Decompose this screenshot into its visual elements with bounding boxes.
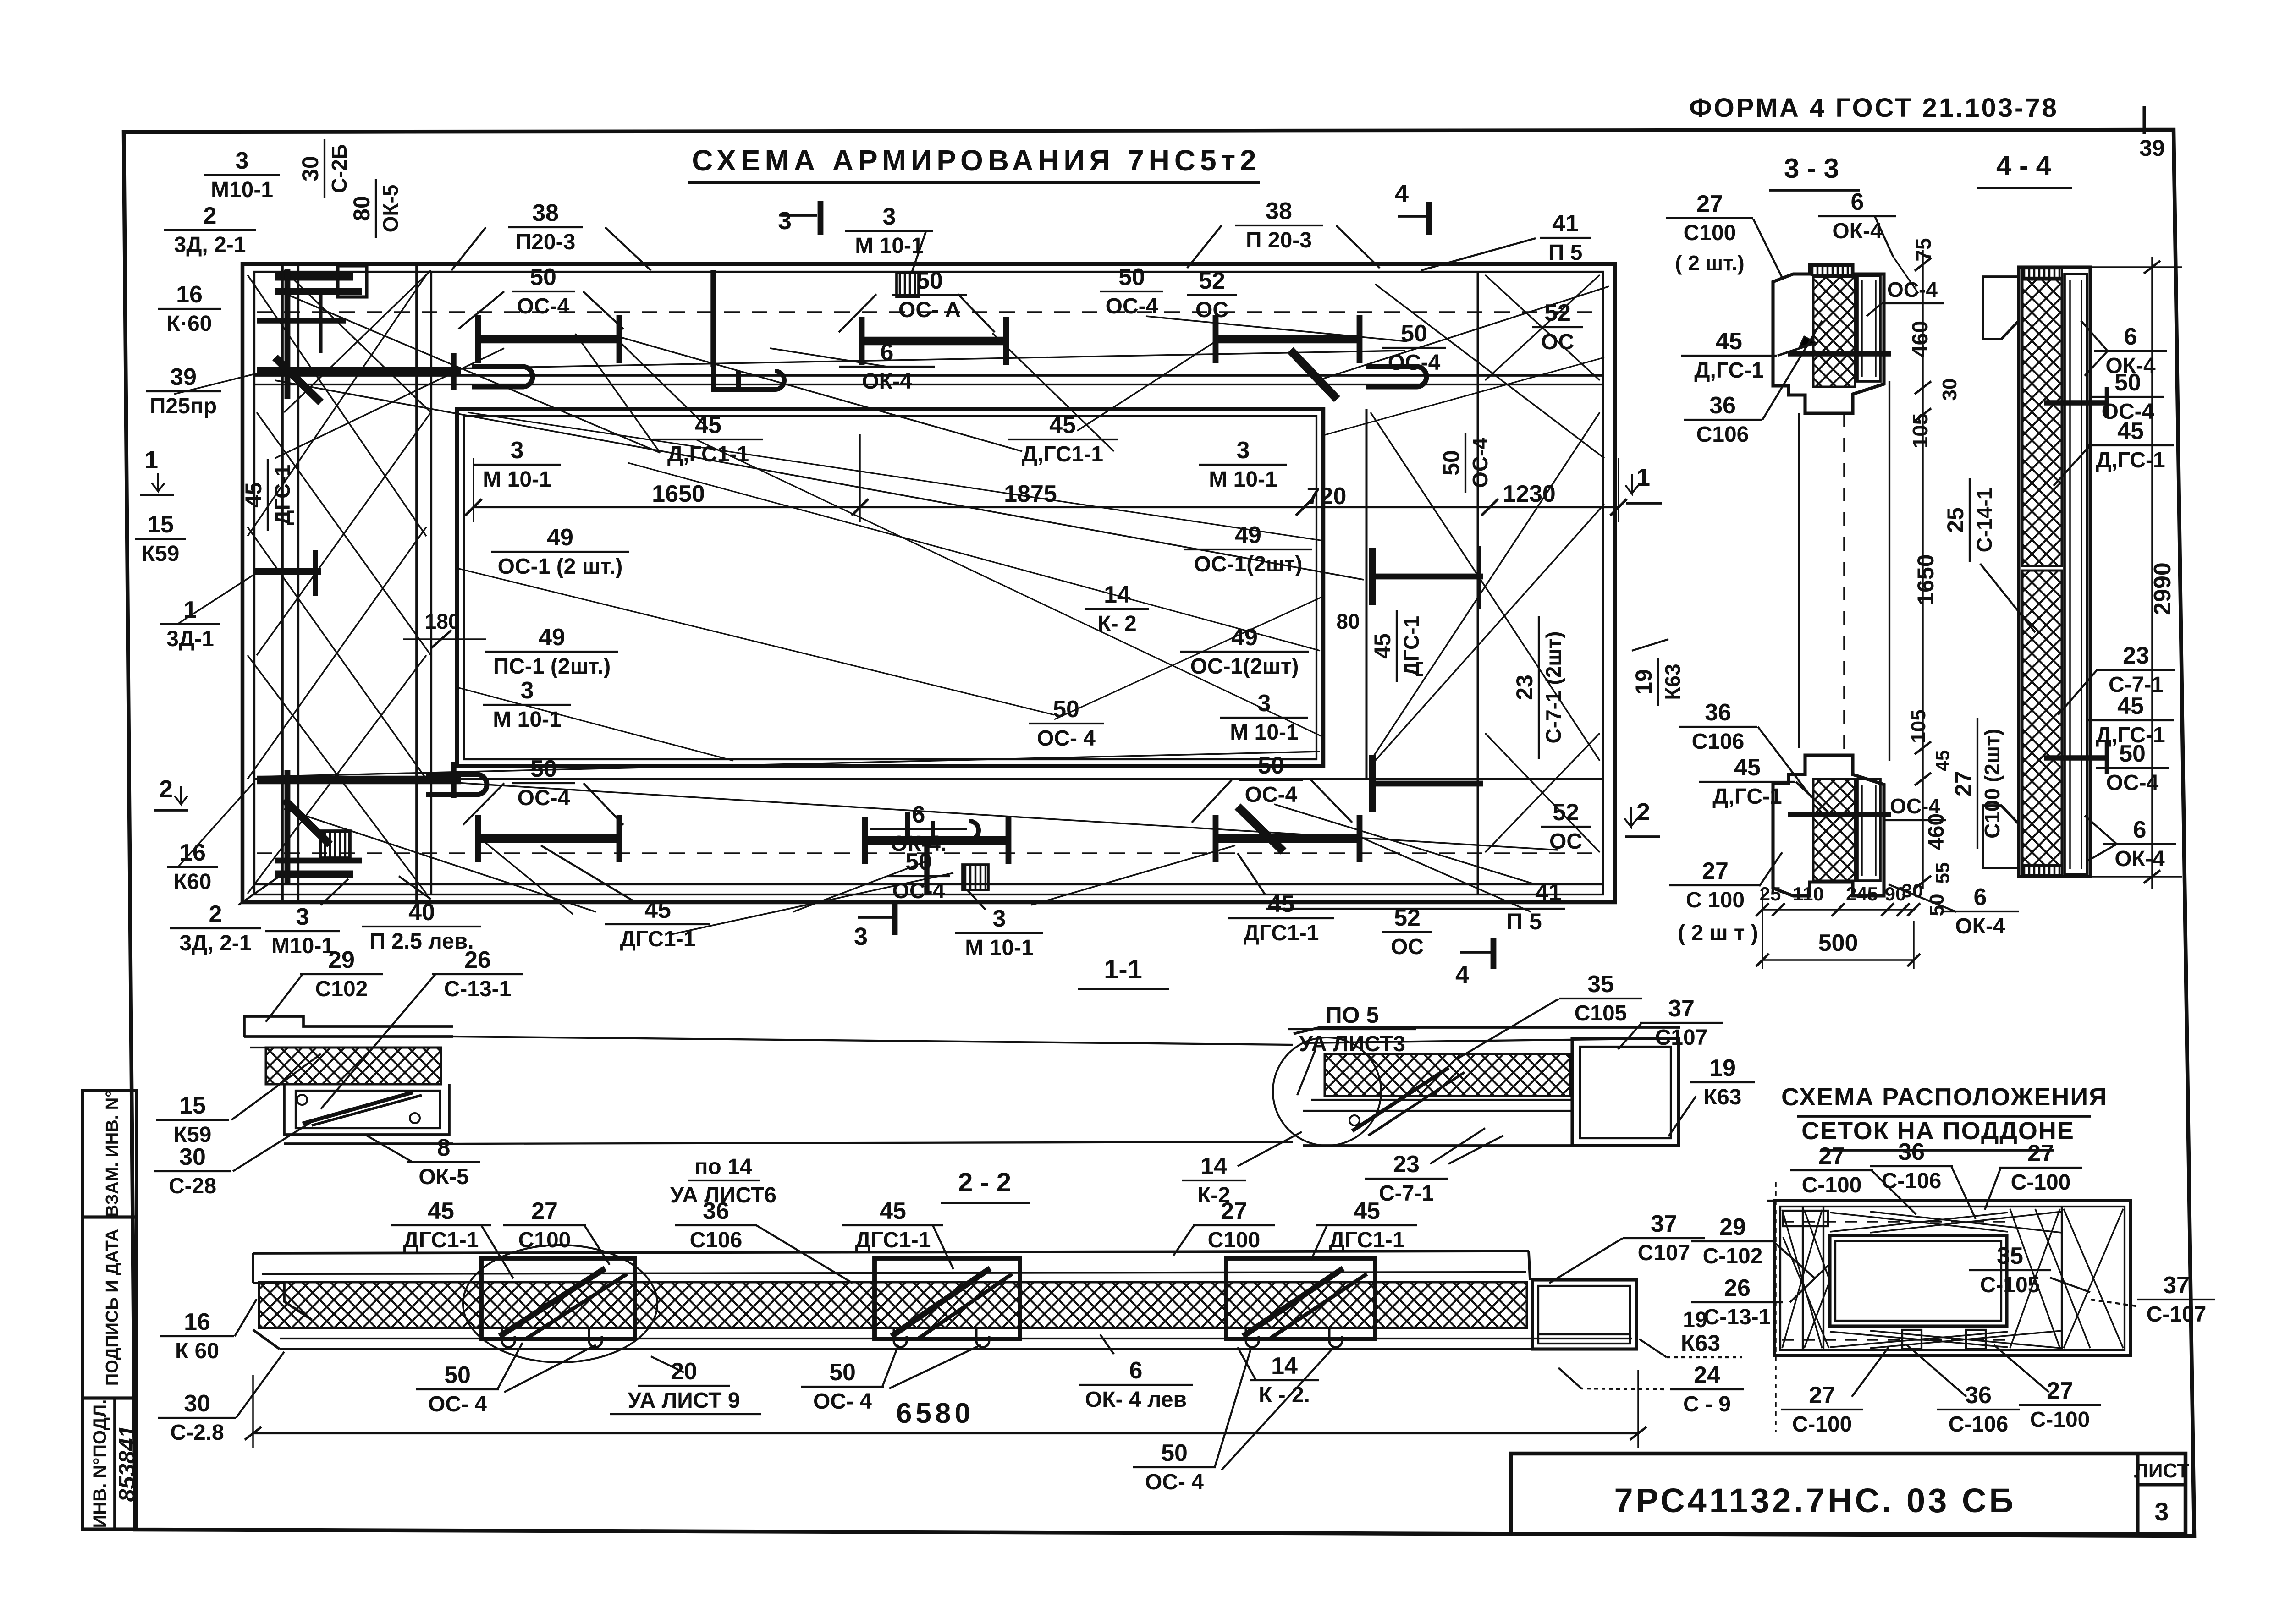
svg-text:2: 2 <box>159 775 173 803</box>
label 29/С-102 right <box>1691 1214 1774 1268</box>
2-2 right end box <box>1529 1251 1530 1280</box>
svg-text:2: 2 <box>209 901 222 927</box>
4-4 bottom cap stripe <box>2022 866 2062 875</box>
label 38/П20-3 top1 <box>508 200 583 254</box>
svg-text:853841: 853841 <box>114 1426 140 1502</box>
svg-text:С-13-1: С-13-1 <box>1704 1305 1771 1329</box>
2-2 left end step <box>252 1253 254 1283</box>
4-4 dim line 2990 <box>2151 257 2153 889</box>
leader 14-1-1 <box>1238 1132 1302 1166</box>
svg-text:15: 15 <box>147 511 174 538</box>
bar ОС-4 top 1 <box>478 335 619 344</box>
2-2 detail ellipse <box>463 1245 657 1362</box>
hook top-left <box>472 367 533 387</box>
svg-text:С-7-1: С-7-1 <box>1379 1181 1434 1206</box>
diag bar ДГС bottom-right <box>1238 807 1283 851</box>
label 30/С-28 2-2 left <box>158 1390 236 1445</box>
svg-text:14: 14 <box>1104 582 1130 608</box>
label 35/С105 1-1 <box>1559 971 1642 1026</box>
svg-text:27: 27 <box>2047 1377 2073 1404</box>
label 45/ДГС-1 4-4 low <box>2087 693 2174 747</box>
4-4 right cell ОК-4 <box>2065 274 2087 874</box>
pallet right band braces <box>2061 1207 2063 1350</box>
leader 19-1-1 <box>1668 1096 1696 1136</box>
svg-text:50: 50 <box>916 268 943 294</box>
label 3/М10-1 bottom-left <box>265 904 340 958</box>
dimension line 1650 1875 720 1230 <box>474 506 1619 508</box>
diag bar ДГС mid-left2 <box>284 800 330 845</box>
svg-text:23: 23 <box>1393 1151 1420 1178</box>
svg-text:ОС-4: ОС-4 <box>1468 438 1492 488</box>
label 49/ОС-1 left <box>491 524 629 579</box>
pallet dim ext lines <box>1775 1182 1777 1432</box>
svg-text:14: 14 <box>1200 1153 1227 1180</box>
leader 16 2-2 <box>235 1299 257 1336</box>
svg-text:55: 55 <box>1932 862 1953 884</box>
label 6/ОК-4 bot-center <box>870 801 967 856</box>
svg-text:30: 30 <box>1938 379 1961 401</box>
svg-text:М 10-1: М 10-1 <box>855 234 923 258</box>
svg-text:ДГС1-1: ДГС1-1 <box>855 1228 931 1252</box>
label 30/С-28 1-1 <box>154 1144 231 1198</box>
label 3/М10-1 mid-l <box>473 437 561 492</box>
label 36/С106 3-3 low <box>1679 699 1757 754</box>
bar ОС-4 top 2 <box>862 337 1006 346</box>
svg-text:1: 1 <box>1636 464 1650 491</box>
svg-text:ОК-5: ОК-5 <box>418 1165 468 1189</box>
panel plan outer rect <box>242 264 1615 902</box>
label 45/ДГС1-1 2-2 b <box>842 1198 943 1252</box>
label 50/ОС-4 top1 <box>512 264 575 318</box>
svg-text:27: 27 <box>1950 771 1976 796</box>
leader 26 <box>321 974 435 1109</box>
svg-text:ОК-4: ОК-4 <box>862 369 912 394</box>
label 52/ОС bottom <box>1382 905 1432 959</box>
label 37/С107 1-1 <box>1640 995 1723 1050</box>
svg-text:К- 2: К- 2 <box>1097 612 1136 636</box>
svg-text:ДГС1-1: ДГС1-1 <box>403 1228 479 1252</box>
right T-bar upper <box>1371 574 1483 580</box>
svg-text:С-14-1: С-14-1 <box>1972 488 1996 553</box>
svg-text:36: 36 <box>1965 1382 1992 1409</box>
label 50/ОС-4 rotated right <box>1438 433 1492 493</box>
svg-text:ОК-4: ОК-4 <box>1955 914 2005 938</box>
svg-text:ОС-4: ОС-4 <box>2106 771 2159 795</box>
section 2-2 top lines <box>253 1251 1529 1253</box>
svg-text:27: 27 <box>1702 858 1729 884</box>
svg-text:С107: С107 <box>1638 1241 1690 1265</box>
svg-text:С-106: С-106 <box>1949 1412 2009 1437</box>
label 6/ОК-4 4-4 bottom <box>2103 817 2176 871</box>
3-3 top right cell <box>1857 276 1880 381</box>
leader web lines <box>284 293 660 453</box>
title block outline <box>1511 1454 2186 1534</box>
leader 37 <box>1618 1024 1641 1049</box>
2-2 right box mark <box>1538 1333 1630 1335</box>
3-3 bottom bar ДГС-1 <box>1788 812 1891 817</box>
label 35/С-105 pallet <box>1969 1243 2051 1297</box>
anchor М10-1 stripe block top <box>897 273 919 297</box>
svg-text:по 14: по 14 <box>694 1155 752 1179</box>
svg-text:ДГС-1: ДГС-1 <box>270 465 294 525</box>
svg-text:ОС-4: ОС-4 <box>1245 783 1298 807</box>
leader 25 4-4 <box>1980 564 2035 632</box>
label 27/С100 2шт 3-3 bot <box>1669 858 1761 912</box>
svg-text:П 2.5 лев.: П 2.5 лев. <box>369 929 474 954</box>
svg-text:50: 50 <box>1401 320 1427 347</box>
label 45/ДГС-1 rotated left <box>241 459 294 531</box>
right T-bar lower <box>1371 781 1483 787</box>
svg-text:С-105: С-105 <box>1980 1273 2040 1297</box>
2-2 bottom line <box>280 1348 1637 1350</box>
svg-text:49: 49 <box>1231 624 1258 651</box>
svg-text:СХЕМА АРМИРОВАНИЯ 7НС5т2: СХЕМА АРМИРОВАНИЯ 7НС5т2 <box>692 144 1261 177</box>
svg-text:27: 27 <box>1221 1198 1247 1224</box>
svg-text:ОК-4: ОК-4 <box>2114 847 2165 871</box>
svg-text:6: 6 <box>881 339 894 366</box>
svg-text:ВЗАМ. ИНВ. N°: ВЗАМ. ИНВ. N° <box>103 1091 122 1218</box>
svg-text:1: 1 <box>184 597 197 623</box>
svg-text:49: 49 <box>547 524 573 551</box>
svg-text:45: 45 <box>644 897 671 923</box>
hook top-right <box>1366 367 1426 387</box>
svg-text:4: 4 <box>1395 180 1409 207</box>
svg-text:50: 50 <box>1161 1440 1188 1466</box>
leader 41 top <box>1421 238 1536 270</box>
svg-text:30: 30 <box>184 1390 210 1417</box>
svg-text:1230: 1230 <box>1503 481 1556 507</box>
1-1 right lower lines <box>1311 1099 1572 1101</box>
leader ОС-4 3-3 <box>1867 303 1882 316</box>
svg-text:105: 105 <box>1907 709 1930 743</box>
label 27/С-100 pallet bot-l <box>1781 1382 1863 1437</box>
label 36/С106 3-3 <box>1684 392 1762 447</box>
svg-text:УА ЛИСТ 9: УА ЛИСТ 9 <box>628 1388 740 1413</box>
svg-text:50: 50 <box>1118 264 1145 291</box>
plan axis dash line bottom <box>257 852 1600 854</box>
label 14/К-2 2-2 <box>1250 1353 1319 1407</box>
svg-text:50: 50 <box>530 264 556 291</box>
plan bottom band lines <box>254 778 1603 780</box>
svg-text:27: 27 <box>1696 191 1723 217</box>
svg-text:2 - 2: 2 - 2 <box>958 1168 1011 1197</box>
svg-text:ПОДПИСЬ И ДАТА: ПОДПИСЬ И ДАТА <box>103 1229 122 1386</box>
label 3/М10-1 lower-r <box>1220 690 1308 745</box>
svg-text:36: 36 <box>1709 392 1736 419</box>
right column verticals <box>1366 409 1368 779</box>
svg-text:С-100: С-100 <box>2011 1170 2071 1195</box>
4-4 bar ОС-4 upper <box>2044 400 2109 405</box>
leader 45 4-4 <box>2054 445 2090 486</box>
sidebar box ИНВ № ПОДЛ <box>83 1398 137 1529</box>
svg-text:16: 16 <box>179 839 206 866</box>
3-3 top hatch <box>1813 277 1855 387</box>
4-4 bar ОС-4 lower <box>2044 755 2109 760</box>
label 52/ОС bot-right <box>1541 799 1591 854</box>
svg-text:ОС: ОС <box>1391 935 1424 959</box>
left column verticals <box>281 264 284 902</box>
stirrup 2 <box>875 1258 1020 1339</box>
label 3/М10-1 mid-r <box>1199 437 1287 492</box>
label 26/С-13-1 1-1 <box>432 947 523 1001</box>
svg-text:Д,ГС-1: Д,ГС-1 <box>1712 785 1782 809</box>
svg-text:Д,ГС-1: Д,ГС-1 <box>2096 448 2165 472</box>
svg-text:16: 16 <box>184 1309 210 1335</box>
svg-text:19: 19 <box>1709 1055 1736 1081</box>
svg-text:180: 180 <box>425 609 460 633</box>
svg-text:2: 2 <box>204 203 217 229</box>
svg-text:35: 35 <box>1587 971 1614 998</box>
leader 36 3-3 <box>1762 321 1822 420</box>
leaders below plan <box>238 873 284 905</box>
label 23/С-7-1 4-4 <box>2097 642 2175 697</box>
svg-text:С-107: С-107 <box>2147 1302 2207 1327</box>
bar П25лев thick <box>257 776 461 785</box>
svg-text:ОС-4: ОС-4 <box>892 879 945 903</box>
svg-text:105: 105 <box>1908 413 1932 449</box>
1-1 right bottom edge <box>1303 1144 1572 1147</box>
svg-text:23: 23 <box>1512 675 1537 700</box>
svg-text:50: 50 <box>1258 752 1284 779</box>
svg-text:45: 45 <box>2117 693 2144 719</box>
label 39/П25пр left <box>146 364 221 418</box>
svg-text:75: 75 <box>1911 238 1935 261</box>
4-4 top cap stripe <box>2022 269 2062 278</box>
svg-text:45: 45 <box>1370 633 1395 659</box>
label 50/ОС-4 bot-right <box>1239 752 1303 807</box>
svg-text:1-1: 1-1 <box>1104 955 1142 984</box>
pallet outer rect <box>1774 1201 2131 1355</box>
svg-text:27: 27 <box>2027 1140 2054 1167</box>
svg-text:ОС-4: ОС-4 <box>518 786 570 810</box>
svg-text:П 5: П 5 <box>1506 909 1542 934</box>
4-4 hatch band upper <box>2022 280 2062 566</box>
label 36/С-106 pallet top <box>1870 1139 1953 1193</box>
svg-text:40: 40 <box>408 899 435 926</box>
label 50/ОС-4 2-2 a <box>416 1362 499 1416</box>
hook top-center Ш <box>713 362 784 390</box>
label 50/ОС-4 top3 <box>1100 264 1163 318</box>
svg-text:С100 (2шт): С100 (2шт) <box>1980 729 2004 839</box>
svg-text:3: 3 <box>236 148 249 174</box>
svg-text:ОС- 4: ОС- 4 <box>813 1389 872 1414</box>
plan window opening <box>457 409 1323 766</box>
svg-text:М 10-1: М 10-1 <box>1230 720 1298 745</box>
4-4 left bottom notch <box>1983 806 2019 868</box>
1-1 left bottom edge <box>284 1142 453 1145</box>
svg-text:С-2.8: С-2.8 <box>170 1421 224 1445</box>
svg-text:460: 460 <box>1908 321 1933 357</box>
label 19/К63 rotated <box>1631 658 1685 706</box>
svg-text:30: 30 <box>297 156 323 181</box>
svg-text:27: 27 <box>1809 1382 1835 1409</box>
svg-text:ОС-1(2шт): ОС-1(2шт) <box>1190 654 1299 679</box>
svg-text:3: 3 <box>993 905 1006 932</box>
label 16/К60 left lower <box>167 839 218 894</box>
svg-text:К63: К63 <box>1704 1085 1742 1109</box>
label 50/ОС-4 center <box>1029 696 1104 751</box>
label 6/ОК-4 3-3 top <box>1818 189 1896 243</box>
svg-text:52: 52 <box>1553 799 1579 826</box>
bar ОС-4 bottom 3 <box>1216 834 1360 843</box>
1-1 right end box <box>1572 1038 1679 1146</box>
svg-text:1875: 1875 <box>1004 481 1057 507</box>
svg-text:С102: С102 <box>315 977 368 1001</box>
3-3 bottom dims 25 110 245 90 30 <box>1762 909 1914 911</box>
left column cross bracing <box>248 275 426 536</box>
svg-text:К59: К59 <box>142 542 180 566</box>
plan top-left corner fitting <box>275 273 353 281</box>
hook bottom-center Ш <box>908 812 979 839</box>
svg-text:45: 45 <box>880 1198 906 1224</box>
label 50/ОС-4 4-4 low <box>2096 741 2169 795</box>
leader 15 <box>231 1054 321 1120</box>
stirrup 1 <box>481 1258 635 1339</box>
2-2 hatch band <box>259 1282 1527 1328</box>
sidebar box ПОДПИСЬ И ДАТА <box>83 1217 137 1398</box>
label 52/ОС right-top <box>1532 300 1583 354</box>
svg-text:К 60: К 60 <box>175 1339 219 1363</box>
flag 50 bot1 <box>463 783 504 825</box>
svg-text:ОК-4: ОК-4 <box>1832 219 1883 243</box>
svg-text:3Д, 2-1: 3Д, 2-1 <box>174 233 246 257</box>
3-3 bottom hatch <box>1813 779 1855 881</box>
label 6/ОК-4 3-3 bottom <box>1941 884 2019 938</box>
svg-text:4 - 4: 4 - 4 <box>1996 150 2052 181</box>
svg-text:С105: С105 <box>1575 1001 1627 1026</box>
plan top band lines <box>254 374 1603 377</box>
leader 3/М10-1 center <box>912 231 926 271</box>
svg-text:27: 27 <box>1818 1143 1845 1169</box>
svg-text:ОС- 4: ОС- 4 <box>1037 726 1096 751</box>
svg-text:3: 3 <box>1258 690 1271 717</box>
svg-text:1650: 1650 <box>652 481 705 507</box>
label 27/С-100 pallet top-r <box>1999 1140 2082 1195</box>
plan axis dash line top <box>257 311 1600 313</box>
svg-text:80: 80 <box>1336 609 1360 633</box>
label 3/М10-1 bottom-center <box>955 905 1043 960</box>
flag 50 top1 <box>458 291 504 329</box>
svg-text:ПС-1 (2шт.): ПС-1 (2шт.) <box>493 654 611 679</box>
svg-text:( 2 ш т ): ( 2 ш т ) <box>1678 921 1758 945</box>
svg-text:ОС: ОС <box>1549 829 1582 854</box>
svg-text:50: 50 <box>2114 369 2141 396</box>
svg-text:ДГС-1: ДГС-1 <box>1399 616 1423 676</box>
1-1 detail circle <box>1273 1037 1381 1146</box>
svg-text:Д,ГС1-1: Д,ГС1-1 <box>1022 442 1103 466</box>
pallet inner rect <box>1830 1235 2007 1326</box>
svg-text:С100: С100 <box>1208 1228 1261 1252</box>
svg-text:23: 23 <box>2123 642 2149 669</box>
svg-text:ОС-4: ОС-4 <box>1106 294 1158 318</box>
leader 35 <box>1458 999 1558 1059</box>
svg-text:41: 41 <box>1552 210 1579 237</box>
label 36/С106 2-2 <box>675 1198 757 1252</box>
label 15/К59 left <box>135 511 186 566</box>
svg-text:С-102: С-102 <box>1703 1244 1763 1268</box>
label 40/П2.5лев bottom <box>362 899 481 954</box>
panel plan inner border <box>254 272 1603 894</box>
leader 8 <box>367 1136 413 1162</box>
label 45/ДГС-1 3-3 <box>1681 328 1777 383</box>
label 49/ОС-1 right2 <box>1180 624 1309 679</box>
svg-text:3Д-1: 3Д-1 <box>166 627 214 651</box>
svg-text:6: 6 <box>2133 817 2147 843</box>
3-3 dim vertical line <box>1922 250 1924 889</box>
label 80/ОК-5 rotated <box>349 179 402 238</box>
label по5 УАЛИСТ3 <box>1288 1002 1416 1056</box>
1-1 left lower box <box>284 1084 449 1135</box>
svg-text:ПО 5: ПО 5 <box>1326 1002 1379 1028</box>
svg-text:6580: 6580 <box>896 1398 974 1429</box>
svg-text:ОС-1(2шт): ОС-1(2шт) <box>1194 552 1303 576</box>
svg-text:3Д, 2-1: 3Д, 2-1 <box>180 931 252 955</box>
hook bottom-left <box>426 774 487 795</box>
label 6/ОК-4 4-4 right-top <box>2094 324 2167 378</box>
leader по5 <box>1297 1049 1316 1095</box>
svg-text:К60: К60 <box>174 870 212 894</box>
svg-text:ФОРМА 4 ГОСТ 21.103-78: ФОРМА 4 ГОСТ 21.103-78 <box>1689 93 2059 123</box>
leader 36 low 3-3 <box>1758 727 1811 797</box>
diag bar ДГС top-right <box>1290 350 1337 399</box>
svg-text:500: 500 <box>1818 930 1858 956</box>
svg-text:29: 29 <box>1719 1214 1746 1240</box>
label 38/П20-3 top2 <box>1235 198 1323 252</box>
label 23/С-7-1 rotated <box>1512 616 1565 759</box>
svg-text:ОС-1 (2 шт.): ОС-1 (2 шт.) <box>498 554 623 579</box>
svg-text:25: 25 <box>1943 507 1968 533</box>
svg-text:45: 45 <box>1716 328 1742 355</box>
svg-text:50: 50 <box>530 756 557 782</box>
svg-text:26: 26 <box>1724 1275 1751 1301</box>
svg-text:41: 41 <box>1535 879 1562 906</box>
label 8/ОК-5 1-1 <box>407 1135 480 1189</box>
left mid T-bar <box>255 568 321 575</box>
4-4 left top notch <box>1983 277 2019 339</box>
svg-text:2: 2 <box>1636 798 1650 826</box>
svg-text:П 20-3: П 20-3 <box>1246 228 1312 252</box>
label 3/М10-1 top-left <box>204 148 280 202</box>
svg-text:39: 39 <box>170 364 197 390</box>
leader 45 3-3 <box>1778 343 1816 356</box>
label 45/ДГС1-1 2-2 a <box>391 1198 491 1252</box>
svg-text:50: 50 <box>444 1362 471 1388</box>
svg-text:К - 2.: К - 2. <box>1259 1383 1310 1407</box>
svg-text:45: 45 <box>1734 754 1761 781</box>
svg-text:45: 45 <box>1268 891 1294 917</box>
svg-text:29: 29 <box>328 947 355 973</box>
svg-text:6: 6 <box>1974 884 1987 911</box>
pallet top band details <box>1783 1211 1828 1226</box>
label 37/С-107 pallet <box>2137 1272 2215 1327</box>
1-1 right hatch <box>1325 1054 1570 1096</box>
svg-text:К63: К63 <box>1681 1330 1720 1356</box>
leader 29 <box>266 974 303 1022</box>
section 1-1 left detail outline <box>244 1016 453 1037</box>
leader 19/К63 <box>1632 639 1668 651</box>
svg-text:2990: 2990 <box>2149 562 2176 615</box>
label 25/С-14-1 rotated 4-4 <box>1943 478 1996 562</box>
leader 45 low 3-3 <box>1796 782 1828 812</box>
svg-text:24: 24 <box>1694 1362 1720 1388</box>
svg-text:М10-1: М10-1 <box>211 178 273 202</box>
3-3 top cap stripe ОК-4 <box>1811 266 1852 275</box>
svg-text:50: 50 <box>1438 450 1464 476</box>
label 50/ОС-4 2-2 c <box>1133 1440 1216 1494</box>
svg-text:СХЕМА РАСПОЛОЖЕНИЯ: СХЕМА РАСПОЛОЖЕНИЯ <box>1781 1083 2108 1111</box>
corner mark 39 <box>2142 106 2146 134</box>
label 45/ДГС-1 4-4 <box>2087 418 2174 472</box>
